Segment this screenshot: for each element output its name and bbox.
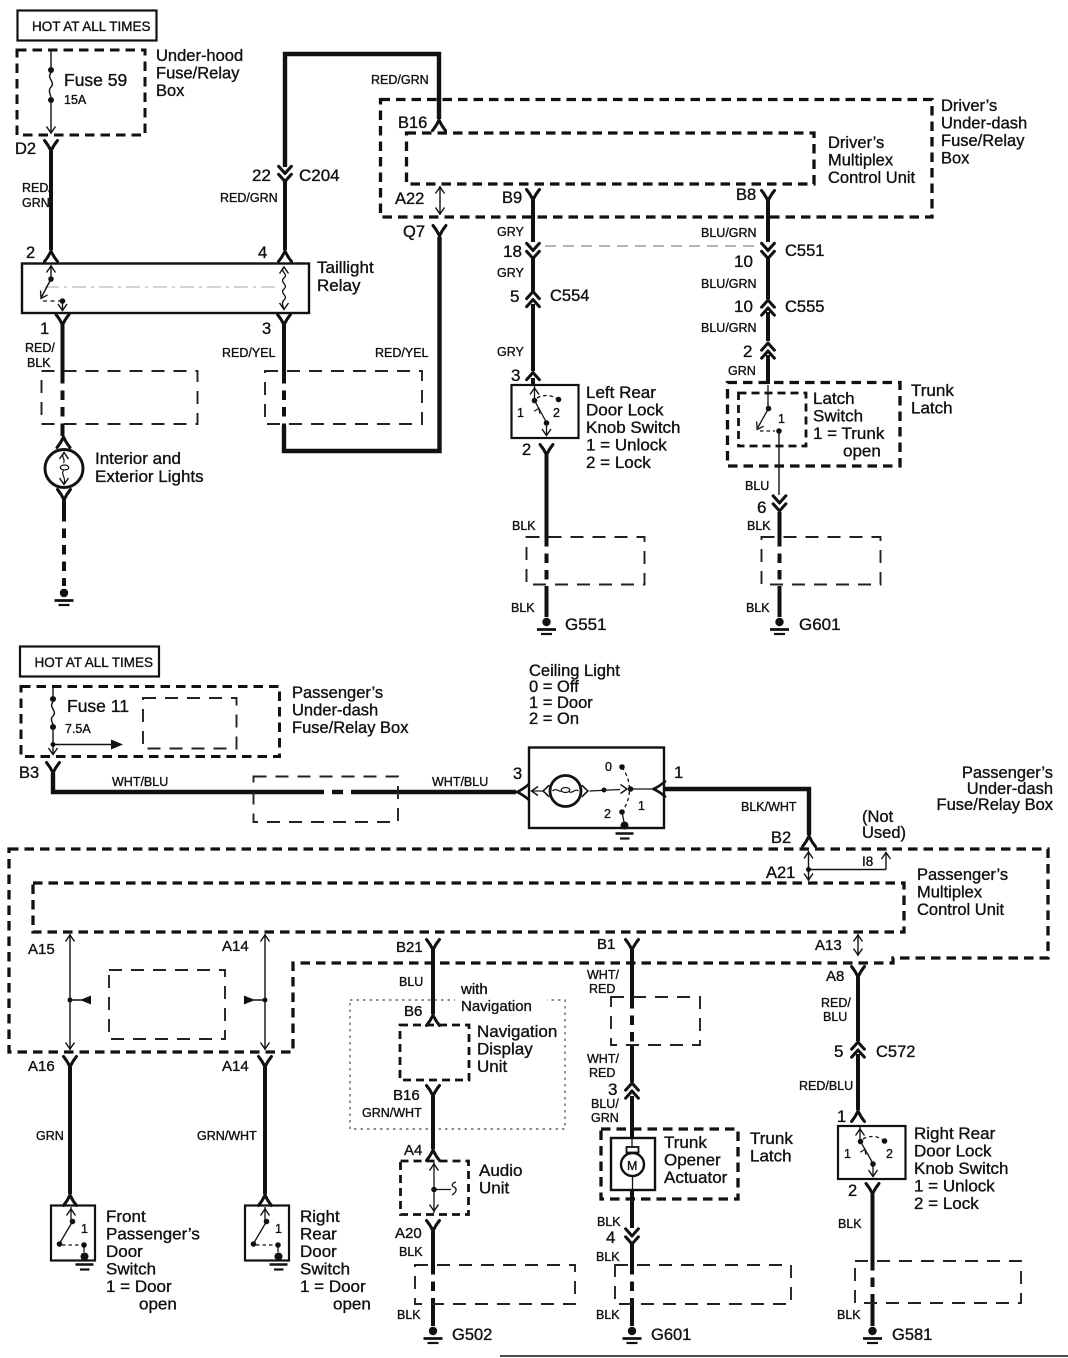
svg-text:GRN: GRN xyxy=(36,1129,64,1143)
wire B9 GRY xyxy=(497,200,533,242)
svg-text:1: 1 xyxy=(844,1147,851,1161)
right rear door lock knob switch xyxy=(838,1126,906,1179)
label trunk latch (lower) xyxy=(750,1129,793,1166)
svg-text:Trunk: Trunk xyxy=(911,381,954,400)
svg-text:GRN: GRN xyxy=(728,364,756,378)
svg-text:GRN/WHT: GRN/WHT xyxy=(197,1129,257,1143)
svg-text:GRY: GRY xyxy=(497,225,525,239)
svg-text:2 = On: 2 = On xyxy=(529,710,579,728)
ground G601 (upper) xyxy=(770,615,841,634)
connector A20 xyxy=(395,1221,440,1243)
svg-text:GRN/WHT: GRN/WHT xyxy=(362,1106,422,1120)
trunk latch box (lower) xyxy=(601,1129,738,1199)
hint box (B1 wire) xyxy=(611,997,700,1045)
svg-text:BLK: BLK xyxy=(399,1245,423,1259)
hint box (inline connector, left) xyxy=(42,371,198,424)
svg-text:B2: B2 xyxy=(771,829,791,847)
wire ceiling light to B2 BLK/WHT xyxy=(664,789,816,847)
svg-text:2 = Lock: 2 = Lock xyxy=(914,1194,979,1213)
svg-text:1: 1 xyxy=(275,1222,282,1236)
left rear door lock knob switch xyxy=(512,385,579,438)
svg-text:Interior and: Interior and xyxy=(95,449,181,468)
svg-text:B6: B6 xyxy=(404,1003,422,1020)
wire B1 WHT/RED xyxy=(587,950,632,1082)
svg-text:G601: G601 xyxy=(799,615,841,634)
hint box (inline connector, pin3 wire) xyxy=(265,371,422,424)
svg-text:Latch: Latch xyxy=(750,1147,792,1166)
label HOT AT ALL TIMES (top) xyxy=(18,11,157,41)
pin B16 xyxy=(398,114,446,132)
label ceiling light legend xyxy=(529,662,620,728)
svg-text:1: 1 xyxy=(638,799,645,813)
passenger's under-dash fuse/relay box (fuse 11) xyxy=(21,687,280,757)
passenger's multiplex control unit xyxy=(33,883,904,932)
svg-text:Right: Right xyxy=(300,1207,340,1226)
svg-text:3: 3 xyxy=(262,320,271,338)
svg-text:BLU: BLU xyxy=(399,975,423,989)
pin A21 / I8 link xyxy=(766,851,891,882)
svg-text:Fuse 11: Fuse 11 xyxy=(67,696,129,716)
wire B3 to ceiling light WHT/BLU xyxy=(53,773,529,800)
svg-text:1 = Unlock: 1 = Unlock xyxy=(586,436,667,455)
wire lamp to ground xyxy=(58,490,71,587)
svg-text:Actuator: Actuator xyxy=(664,1168,728,1187)
hint box (inline connector, G601 wire) xyxy=(762,537,881,585)
connector pin 3 (single chevron) xyxy=(511,366,539,385)
svg-text:Switch: Switch xyxy=(300,1260,350,1279)
latch switch xyxy=(739,385,807,495)
svg-text:Latch: Latch xyxy=(813,389,855,408)
ground G502 xyxy=(424,1326,493,1344)
svg-text:BLU/GRN: BLU/GRN xyxy=(701,277,757,291)
with navigation dotted region xyxy=(350,981,565,1129)
svg-text:RED/: RED/ xyxy=(25,341,55,355)
svg-text:Fuse/Relay Box: Fuse/Relay Box xyxy=(292,719,409,737)
svg-text:Unit: Unit xyxy=(479,1179,510,1198)
label right rear door lock knob switch xyxy=(914,1124,1009,1213)
svg-text:Taillight: Taillight xyxy=(317,258,374,277)
wire C204 to relay pin 4, RED/GRN xyxy=(220,180,292,262)
driver's under-dash fuse/relay box xyxy=(381,100,933,218)
svg-text:BLK: BLK xyxy=(596,1250,620,1264)
wire GRY to switch xyxy=(497,304,533,371)
svg-text:WHT/BLU: WHT/BLU xyxy=(112,775,168,789)
pin B8 xyxy=(736,186,775,204)
svg-text:7.5A: 7.5A xyxy=(65,722,91,736)
label passenger's under-dash fuse/relay box (right) xyxy=(937,764,1054,814)
svg-text:2: 2 xyxy=(604,807,611,821)
svg-text:2: 2 xyxy=(886,1147,893,1161)
svg-text:22: 22 xyxy=(252,166,271,185)
connector A16 xyxy=(28,1057,77,1076)
svg-text:Display: Display xyxy=(477,1040,533,1059)
connector D2 xyxy=(15,140,58,158)
svg-text:1: 1 xyxy=(81,1222,88,1236)
svg-text:B16: B16 xyxy=(393,1087,420,1104)
svg-text:open: open xyxy=(843,442,881,461)
label driver's multiplex control unit xyxy=(828,134,916,187)
label right rear door switch xyxy=(300,1207,371,1314)
wire GRN/WHT nav to audio xyxy=(362,1096,440,1161)
label taillight relay xyxy=(317,258,374,295)
svg-text:Door Lock: Door Lock xyxy=(586,401,664,420)
under-hood fuse/relay box xyxy=(17,50,145,135)
svg-text:Driver’s: Driver’s xyxy=(828,134,884,152)
svg-text:GRY: GRY xyxy=(497,266,525,280)
wire BLK to G581 xyxy=(837,1184,879,1327)
label latch switch xyxy=(813,389,885,461)
connector C204 xyxy=(252,166,340,185)
svg-text:1: 1 xyxy=(778,412,785,426)
svg-text:B8: B8 xyxy=(736,186,756,204)
wire BLK pin 4 xyxy=(597,1190,638,1247)
wire BLU pin 6 xyxy=(745,479,786,517)
svg-text:BLK: BLK xyxy=(596,1308,620,1322)
hint box (inline connector, G551 wire) xyxy=(527,537,645,585)
svg-text:BLK: BLK xyxy=(597,1215,621,1229)
svg-text:Front: Front xyxy=(106,1207,146,1226)
svg-text:A22: A22 xyxy=(395,190,424,208)
passenger's under-dash fuse/relay box outline xyxy=(9,849,1048,1052)
svg-text:BLK: BLK xyxy=(511,601,535,615)
svg-text:A14: A14 xyxy=(222,1058,249,1075)
svg-text:3: 3 xyxy=(513,765,522,783)
wire A14 GRN/WHT to right rear door switch xyxy=(197,1067,272,1206)
svg-text:G581: G581 xyxy=(892,1326,932,1344)
svg-text:1 = Unlock: 1 = Unlock xyxy=(914,1177,995,1196)
svg-text:C551: C551 xyxy=(785,242,824,260)
page edge line xyxy=(500,1355,1068,1357)
svg-text:A13: A13 xyxy=(815,937,842,954)
pin B1 xyxy=(597,936,639,953)
svg-text:Switch: Switch xyxy=(106,1260,156,1279)
label not used xyxy=(862,808,906,842)
svg-text:A15: A15 xyxy=(28,941,55,958)
fuse 11 7.5A xyxy=(49,687,129,755)
svg-text:Fuse/Relay: Fuse/Relay xyxy=(156,65,240,83)
wire BLU/GRN to trunk opener xyxy=(591,1096,632,1139)
svg-text:BLU: BLU xyxy=(823,1010,847,1024)
svg-text:I8: I8 xyxy=(862,854,873,869)
svg-text:Door: Door xyxy=(106,1242,143,1261)
svg-text:Multiplex: Multiplex xyxy=(828,152,894,170)
wire D2 to relay pin 2, RED/GRN xyxy=(22,151,58,262)
svg-text:RED/GRN: RED/GRN xyxy=(371,73,429,87)
svg-text:HOT AT ALL TIMES: HOT AT ALL TIMES xyxy=(32,19,151,34)
svg-text:Box: Box xyxy=(156,82,185,100)
svg-text:BLU/: BLU/ xyxy=(591,1097,619,1111)
svg-text:10: 10 xyxy=(734,297,753,316)
connector A14 (lower) xyxy=(222,1057,272,1076)
svg-text:Under-dash: Under-dash xyxy=(941,115,1027,133)
svg-text:C555: C555 xyxy=(785,298,824,316)
svg-text:Knob Switch: Knob Switch xyxy=(586,418,681,437)
svg-text:BLK: BLK xyxy=(512,519,536,533)
ceiling light unit xyxy=(529,748,665,839)
svg-text:1 = Trunk: 1 = Trunk xyxy=(813,424,885,443)
svg-text:4: 4 xyxy=(606,1228,615,1247)
trunk latch box (upper) xyxy=(728,383,901,467)
right rear door switch xyxy=(245,1206,289,1270)
ground G581 xyxy=(863,1326,932,1344)
connector A8 xyxy=(826,967,865,986)
connector pin 3 chevron xyxy=(608,1080,638,1099)
pin B9 xyxy=(502,189,540,207)
wire A16 GRN to front passenger's door switch xyxy=(36,1067,77,1206)
pin A14 link (left) xyxy=(222,934,270,1050)
svg-text:Fuse/Relay Box: Fuse/Relay Box xyxy=(937,796,1054,814)
svg-text:Passenger’s: Passenger’s xyxy=(292,684,383,702)
svg-text:A14: A14 xyxy=(222,938,249,955)
svg-text:A16: A16 xyxy=(28,1058,55,1075)
svg-text:WHT/: WHT/ xyxy=(587,1052,619,1066)
svg-text:G601: G601 xyxy=(651,1326,691,1344)
lamp interior and exterior lights xyxy=(45,450,83,488)
label under-hood fuse/relay box xyxy=(156,47,243,100)
hint box between A15/A14 xyxy=(109,970,225,1039)
svg-text:G502: G502 xyxy=(452,1326,492,1344)
svg-text:2: 2 xyxy=(743,342,752,361)
svg-text:18: 18 xyxy=(503,242,522,261)
label interior and exterior lights xyxy=(95,449,204,486)
svg-text:0: 0 xyxy=(605,760,612,774)
hint box (G581 wire) xyxy=(855,1261,1021,1303)
connector B16 (nav out) xyxy=(393,1086,440,1105)
svg-text:Passenger’s: Passenger’s xyxy=(106,1225,200,1244)
svg-text:A4: A4 xyxy=(404,1142,422,1159)
wire B21 BLU to navigation xyxy=(399,950,440,1026)
svg-text:WHT/BLU: WHT/BLU xyxy=(432,775,488,789)
wire BLK to G601 xyxy=(746,512,780,617)
svg-text:Driver’s: Driver’s xyxy=(941,97,997,115)
svg-text:BLK: BLK xyxy=(746,601,770,615)
svg-text:15A: 15A xyxy=(64,93,87,107)
svg-text:BLU/GRN: BLU/GRN xyxy=(701,321,757,335)
svg-text:C572: C572 xyxy=(876,1043,915,1061)
connector C551 pin 10 xyxy=(734,242,824,271)
svg-text:RED/YEL: RED/YEL xyxy=(375,346,429,360)
wire switch to G551, BLK xyxy=(511,445,553,618)
label trunk latch (upper) xyxy=(911,381,954,418)
wire GRN to latch xyxy=(728,355,768,384)
svg-text:RED/YEL: RED/YEL xyxy=(222,346,276,360)
wire BLK to G601 lower xyxy=(596,1243,632,1326)
svg-text:A21: A21 xyxy=(766,864,795,882)
svg-text:10: 10 xyxy=(734,252,753,271)
svg-text:2: 2 xyxy=(553,406,560,420)
connector 18 (C551 leader) xyxy=(503,242,755,261)
driver's multiplex control unit xyxy=(407,133,815,184)
svg-text:Unit: Unit xyxy=(477,1057,508,1076)
svg-text:5: 5 xyxy=(834,1042,843,1061)
svg-text:RED/: RED/ xyxy=(821,996,851,1010)
wire BLU/GRN to pin 2 xyxy=(701,312,768,341)
svg-text:A8: A8 xyxy=(826,968,844,985)
svg-text:RED/GRN: RED/GRN xyxy=(220,191,278,205)
svg-text:BLK: BLK xyxy=(837,1308,861,1322)
svg-text:Fuse 59: Fuse 59 xyxy=(64,70,127,90)
wire RED/BLU to C572 xyxy=(821,977,858,1041)
svg-text:RED/: RED/ xyxy=(22,181,52,195)
svg-text:1: 1 xyxy=(40,320,49,338)
hint sub-box in fuse box xyxy=(143,698,237,749)
svg-text:Door: Door xyxy=(300,1242,337,1261)
pin B21 xyxy=(396,939,440,956)
svg-text:open: open xyxy=(333,1295,371,1314)
svg-text:Switch: Switch xyxy=(813,407,863,426)
svg-text:Opener: Opener xyxy=(664,1151,721,1170)
svg-text:5: 5 xyxy=(510,287,519,306)
ground G551 xyxy=(537,615,607,634)
svg-text:Left Rear: Left Rear xyxy=(586,383,656,402)
wire relay pin1 to lamp, RED/BLK xyxy=(25,315,70,448)
svg-text:Multiplex: Multiplex xyxy=(917,884,983,902)
svg-text:GRN: GRN xyxy=(22,196,50,210)
svg-text:2: 2 xyxy=(26,244,35,262)
wire GRY to C554 xyxy=(497,257,533,291)
svg-text:GRY: GRY xyxy=(497,345,525,359)
wire BLU/GRN to C555 xyxy=(701,257,768,299)
svg-text:BLK/WHT: BLK/WHT xyxy=(741,800,797,814)
svg-text:Audio: Audio xyxy=(479,1161,522,1180)
svg-text:Relay: Relay xyxy=(317,276,361,295)
svg-text:B1: B1 xyxy=(597,936,615,953)
pin A15 link xyxy=(28,934,91,1050)
trunk opener actuator xyxy=(611,1138,655,1190)
ground (interior lights) xyxy=(55,589,74,605)
label passenger's multiplex control unit xyxy=(917,866,1008,919)
svg-text:Q7: Q7 xyxy=(403,223,425,241)
connector C554 pin 5 xyxy=(510,287,589,307)
svg-text:4: 4 xyxy=(258,244,267,262)
label left rear door lock knob switch xyxy=(586,383,681,472)
ground G601 (lower) xyxy=(623,1326,692,1344)
label driver's under-dash fuse/relay box xyxy=(941,97,1027,168)
svg-text:WHT/: WHT/ xyxy=(587,968,619,982)
fuse 59 15A xyxy=(47,51,128,133)
hint box (G502 wire) xyxy=(415,1265,575,1304)
svg-text:1 = Door: 1 = Door xyxy=(106,1277,172,1296)
hint box (G601 lower wire) xyxy=(615,1265,791,1304)
svg-text:6: 6 xyxy=(757,498,766,517)
pin A22 internal link xyxy=(395,186,445,215)
svg-text:M: M xyxy=(627,1159,637,1173)
label front passenger's door switch xyxy=(106,1207,200,1314)
svg-text:BLK: BLK xyxy=(838,1217,862,1231)
svg-text:RED: RED xyxy=(589,1066,615,1080)
svg-text:2: 2 xyxy=(522,441,531,459)
label trunk opener actuator xyxy=(664,1133,728,1187)
svg-text:Rear: Rear xyxy=(300,1225,337,1244)
svg-text:1: 1 xyxy=(674,764,683,782)
svg-text:1: 1 xyxy=(517,406,524,420)
svg-text:C204: C204 xyxy=(299,166,340,185)
svg-text:D2: D2 xyxy=(15,140,36,158)
audio unit xyxy=(401,1161,469,1215)
svg-text:Under-hood: Under-hood xyxy=(156,47,243,65)
svg-text:Control Unit: Control Unit xyxy=(917,901,1005,919)
svg-text:B16: B16 xyxy=(398,114,427,132)
svg-text:Latch: Latch xyxy=(911,399,953,418)
svg-text:Door Lock: Door Lock xyxy=(914,1142,992,1161)
connector B3 xyxy=(19,763,60,783)
svg-text:Under-dash: Under-dash xyxy=(292,702,378,720)
taillight relay xyxy=(22,264,309,314)
wire RED/BLU to right rear lock switch xyxy=(799,1054,865,1122)
connector pin 2 chevron xyxy=(743,342,774,361)
svg-text:B9: B9 xyxy=(502,189,522,207)
svg-text:Exterior Lights: Exterior Lights xyxy=(95,467,204,486)
wire BLK to G502 xyxy=(397,1231,433,1326)
svg-text:BLK: BLK xyxy=(747,519,771,533)
svg-text:2 = Lock: 2 = Lock xyxy=(586,453,651,472)
svg-text:Passenger’s: Passenger’s xyxy=(917,866,1008,884)
svg-text:1: 1 xyxy=(837,1108,846,1126)
svg-text:Fuse/Relay: Fuse/Relay xyxy=(941,132,1025,150)
svg-text:Knob Switch: Knob Switch xyxy=(914,1159,1009,1178)
svg-text:RED/BLU: RED/BLU xyxy=(799,1079,853,1093)
svg-text:Right Rear: Right Rear xyxy=(914,1124,996,1143)
svg-text:G551: G551 xyxy=(565,615,607,634)
label passenger's under-dash fuse/relay box xyxy=(292,684,409,737)
svg-text:1 = Door: 1 = Door xyxy=(300,1277,366,1296)
svg-text:2: 2 xyxy=(848,1182,857,1200)
svg-text:BLU/GRN: BLU/GRN xyxy=(701,226,757,240)
svg-text:B21: B21 xyxy=(396,939,423,956)
svg-text:BLK: BLK xyxy=(27,356,51,370)
front passenger's door switch xyxy=(51,1206,95,1270)
svg-text:BLK: BLK xyxy=(397,1308,421,1322)
svg-text:Trunk: Trunk xyxy=(664,1133,707,1152)
svg-text:3: 3 xyxy=(511,366,520,385)
label navigation display unit xyxy=(477,1022,557,1076)
svg-text:B3: B3 xyxy=(19,764,39,782)
hint box (inline connector, B3 wire) xyxy=(254,777,399,823)
wire top feed RED/GRN (horizontal) xyxy=(285,54,439,167)
connector C572 pin 5 xyxy=(834,1042,915,1061)
svg-text:RED: RED xyxy=(589,982,615,996)
wire relay pin3 to Q7, RED/YEL xyxy=(222,226,446,452)
svg-text:Navigation: Navigation xyxy=(477,1022,557,1041)
svg-text:HOT AT ALL TIMES: HOT AT ALL TIMES xyxy=(35,655,154,670)
svg-text:open: open xyxy=(139,1295,177,1314)
svg-text:GRN: GRN xyxy=(591,1111,619,1125)
svg-text:Control Unit: Control Unit xyxy=(828,169,916,187)
navigation display unit xyxy=(400,1025,469,1080)
svg-text:Used): Used) xyxy=(862,824,906,842)
svg-text:Navigation: Navigation xyxy=(461,998,532,1015)
svg-text:Trunk: Trunk xyxy=(750,1129,793,1148)
svg-text:A20: A20 xyxy=(395,1225,422,1242)
wire B8 BLU/GRN xyxy=(701,201,768,242)
svg-text:BLU: BLU xyxy=(745,479,769,493)
svg-text:Box: Box xyxy=(941,150,970,168)
pin A13 link xyxy=(815,934,863,956)
svg-text:with: with xyxy=(460,981,488,998)
label audio unit xyxy=(479,1161,522,1198)
svg-text:C554: C554 xyxy=(550,287,589,305)
label HOT AT ALL TIMES (middle) xyxy=(20,647,159,677)
connector C555 pin 10 xyxy=(734,297,824,316)
